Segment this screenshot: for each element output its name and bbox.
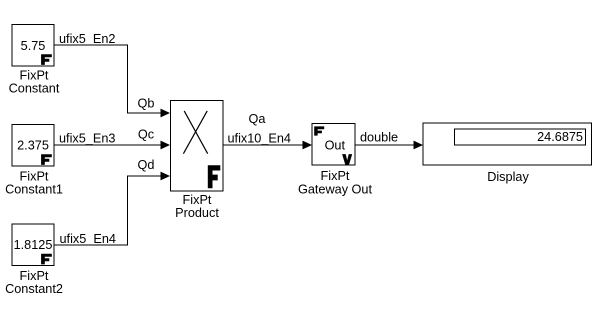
svg-text:Constant: Constant bbox=[9, 82, 60, 96]
svg-text:FixPt: FixPt bbox=[20, 170, 49, 184]
gateway block U2 (FixPt Gateway Out) bbox=[312, 124, 355, 166]
svg-text:Qd: Qd bbox=[138, 158, 155, 172]
product block U1 (FixPt Product) bbox=[171, 101, 224, 192]
svg-text:ufix5_En2: ufix5_En2 bbox=[59, 32, 115, 46]
label: FixPt Constant bbox=[9, 69, 60, 96]
constant block C2 value 2.375 (FixPt Constant1) bbox=[12, 125, 54, 167]
svg-text:Qc: Qc bbox=[138, 128, 155, 142]
wire: Constant1 2.375 to Product input 2 (net ufix5_En3 / Qc) bbox=[54, 141, 170, 150]
wire: Constant2 1.8125 to Product input 3 (net ufix5_En4 / Qd) bbox=[54, 172, 170, 245]
svg-text:FixPt: FixPt bbox=[183, 193, 212, 207]
svg-text:Constant2: Constant2 bbox=[5, 282, 63, 296]
svg-text:FixPt: FixPt bbox=[321, 169, 350, 183]
label: Display bbox=[487, 170, 529, 184]
display block (Display) showing 24.6875 bbox=[423, 123, 592, 165]
constant block C3 value 1.8125 (FixPt Constant2) bbox=[12, 224, 54, 266]
label: FixPt Constant2 bbox=[5, 269, 63, 296]
svg-text:Qa: Qa bbox=[249, 112, 267, 126]
svg-text:ufix5_En3: ufix5_En3 bbox=[59, 131, 115, 145]
wire: Gateway Out to Display (net double) bbox=[355, 141, 423, 150]
constant block C1 value 5.75 (FixPt Constant) bbox=[12, 25, 54, 67]
svg-text:Product: Product bbox=[175, 206, 219, 220]
svg-text:1.8125: 1.8125 bbox=[14, 238, 53, 252]
svg-text:Gateway Out: Gateway Out bbox=[298, 183, 373, 197]
wire: Product output to Gateway Out input (net Qa / ufix10_En4) bbox=[223, 141, 312, 150]
svg-text:Out: Out bbox=[325, 139, 346, 153]
svg-text:Qb: Qb bbox=[138, 97, 155, 111]
svg-text:5.75: 5.75 bbox=[21, 39, 46, 53]
svg-text:2.375: 2.375 bbox=[17, 139, 49, 153]
label: FixPt Gateway Out bbox=[298, 169, 373, 196]
label: FixPt Product bbox=[175, 193, 219, 220]
label: FixPt Constant1 bbox=[5, 170, 63, 197]
wire: Constant 5.75 to Product input 1 (net ufix5_En2 / Qb) bbox=[54, 45, 170, 117]
svg-text:double: double bbox=[360, 131, 398, 145]
svg-text:ufix10_En4: ufix10_En4 bbox=[228, 131, 292, 145]
svg-text:Display: Display bbox=[487, 170, 529, 184]
svg-text:FixPt: FixPt bbox=[20, 69, 49, 83]
svg-text:FixPt: FixPt bbox=[20, 269, 49, 283]
svg-text:Constant1: Constant1 bbox=[5, 183, 63, 197]
svg-text:24.6875: 24.6875 bbox=[537, 130, 583, 144]
svg-text:ufix5_En4: ufix5_En4 bbox=[60, 232, 116, 246]
